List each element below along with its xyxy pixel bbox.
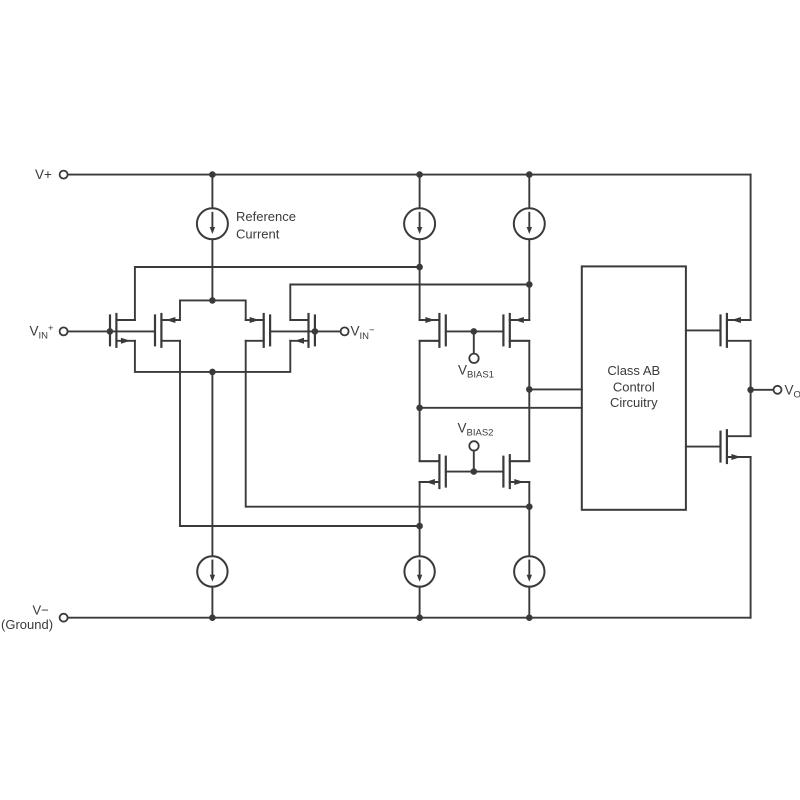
wire M7/M8 gate line VBIAS2	[446, 471, 504, 473]
wire M3/M4 gates to VIN- terminal	[270, 330, 341, 332]
svg-text:VIN+: VIN+	[30, 323, 55, 342]
terminal VIN-	[341, 327, 349, 335]
wire M1 drain to left cascode column (y=267)	[135, 267, 420, 320]
node junction bottom rail / I4	[209, 614, 216, 621]
transistor M8 (NMOS cascode right)	[503, 454, 529, 489]
wire M2 drain down and right to left cascode lower column	[180, 341, 420, 526]
wire reference current to PMOS pair tail node	[211, 239, 213, 300]
wire class AB box to M9 gate	[686, 329, 721, 331]
wire V+ rail to right top current source	[528, 175, 530, 209]
transistor M7 (NMOS cascode left)	[420, 454, 446, 489]
wire output node to M10 drain	[750, 390, 752, 436]
svg-text:V−: V−	[33, 602, 49, 617]
wire V+ rail to M9 source	[750, 175, 752, 320]
transistor M1 (NMOS input, VIN+)	[110, 313, 135, 348]
node VBIAS2 gate junction	[471, 451, 478, 475]
wire I6 to V- rail	[528, 587, 530, 618]
label VO	[785, 382, 800, 400]
svg-text:Control: Control	[613, 380, 655, 395]
wire I2 to M5 source	[420, 239, 440, 320]
node PMOS pair tail	[180, 297, 246, 320]
transistor M4 (NMOS input, VIN-)	[290, 313, 315, 348]
node M6 drain to class AB line	[526, 386, 533, 393]
current sink I5 (left cascode)	[404, 556, 434, 586]
current source I1 (reference)	[197, 208, 228, 239]
node M3 drain / cascode column junction	[526, 503, 533, 510]
wire M5 drain node to class AB box	[420, 407, 582, 409]
label Reference Current	[236, 209, 296, 242]
svg-text:VO: VO	[785, 382, 800, 400]
transistor M9 (PMOS output)	[721, 313, 751, 348]
wire I4 to V- rail	[211, 587, 213, 618]
node junction top rail / right cascode source	[526, 171, 533, 178]
wire V- bottom rail	[68, 617, 751, 619]
wire M5/M6 gate line VBIAS1	[446, 330, 504, 332]
current sink I6 (right cascode)	[514, 556, 544, 586]
node M1 drain / cascode column junction	[416, 264, 423, 271]
node junction top rail / left cascode source	[416, 171, 423, 178]
node M5 drain to class AB line	[416, 405, 423, 412]
terminal VBIAS1	[469, 354, 478, 363]
transistor M10 (NMOS output)	[721, 429, 751, 464]
node NMOS pair tail	[135, 341, 290, 375]
wire I3 to M6 source	[510, 239, 530, 320]
wire M4 drain to right cascode column (y=284.5)	[290, 285, 529, 321]
wire V+ rail to reference current source	[211, 175, 213, 209]
transistor M2 (PMOS input, VIN+)	[155, 313, 180, 348]
block U1 Class AB Control Circuitry	[582, 266, 686, 509]
current sink I4 (input tail)	[197, 556, 227, 586]
transistor M6 (PMOS cascode right)	[503, 313, 529, 348]
wire M6 drain to M8 source	[510, 341, 530, 461]
wire I5 to V- rail	[419, 587, 421, 618]
node M2 drain / cascode column junction	[416, 523, 423, 530]
svg-text:V+: V+	[35, 167, 52, 182]
wire VIN+ to M1/M2 gates	[68, 330, 155, 332]
wire M9 drain to output node	[750, 341, 752, 390]
wire M3 drain down and right to right cascode lower column	[246, 341, 530, 507]
node junction bottom rail / I5	[416, 614, 423, 621]
wire NMOS tail to bottom current sink	[211, 372, 213, 557]
svg-text:Current: Current	[236, 227, 280, 242]
node M1 gate junction	[107, 328, 114, 335]
node junction top rail / reference current	[209, 171, 216, 178]
node M4 gate junction	[312, 328, 319, 335]
label V- (Ground)	[1, 602, 53, 632]
wire M5 drain to M7 source	[420, 341, 440, 461]
current source I2 (left cascode)	[404, 208, 435, 239]
label VIN+	[30, 323, 55, 342]
current source I3 (right cascode)	[514, 208, 545, 239]
label VBIAS1	[458, 362, 494, 380]
wire V+ top rail	[68, 174, 751, 176]
node VBIAS1 gate junction	[471, 328, 478, 353]
wire V+ rail to left top current source	[419, 175, 421, 209]
transistor M3 (PMOS input, VIN-)	[246, 313, 270, 348]
svg-text:Circuitry: Circuitry	[610, 395, 658, 410]
svg-text:(Ground): (Ground)	[1, 617, 53, 632]
svg-text:Class AB: Class AB	[607, 363, 660, 378]
wire M8 drain to right bottom current sink	[510, 482, 530, 557]
label VIN-	[351, 324, 376, 342]
svg-text:VBIAS2: VBIAS2	[458, 420, 494, 438]
svg-text:VIN−: VIN−	[351, 324, 376, 342]
wire class AB box to M10 gate	[686, 446, 721, 448]
node junction bottom rail / I6	[526, 614, 533, 621]
wire M7 drain to left bottom current sink	[420, 482, 440, 557]
label VBIAS2	[458, 420, 494, 438]
transistor M5 (PMOS cascode left)	[420, 313, 446, 348]
terminal V-	[60, 614, 68, 622]
svg-text:VBIAS1: VBIAS1	[458, 362, 494, 380]
node M4 drain / cascode column junction	[526, 281, 533, 288]
wire M10 source to V- rail	[750, 457, 752, 618]
wire M6 drain node to class AB box	[529, 388, 582, 390]
label V+	[35, 167, 52, 182]
terminal VIN+	[60, 327, 68, 335]
node output	[747, 387, 754, 394]
wire output node to VO terminal	[751, 389, 774, 391]
terminal V+	[60, 171, 68, 179]
terminal VO	[774, 386, 782, 394]
terminal VBIAS2	[469, 441, 478, 450]
svg-text:Reference: Reference	[236, 209, 296, 224]
